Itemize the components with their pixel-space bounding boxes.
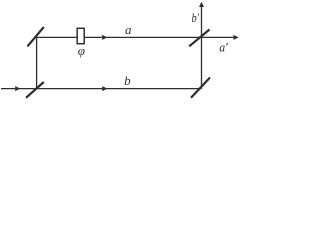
- wire output b' (up): [201, 5, 203, 37]
- wire path a (top): [37, 36, 202, 38]
- mirror top-left: [27, 27, 43, 46]
- wire left vertical: [36, 37, 38, 88]
- arrowhead path a: [102, 35, 107, 40]
- arrowhead input: [15, 86, 20, 91]
- beam splitter BS2 top-right: [189, 30, 209, 47]
- svg-text:b′: b′: [191, 10, 199, 25]
- arrowhead path b: [102, 86, 107, 91]
- beam splitter BS1 bottom-left: [26, 82, 44, 98]
- svg-text:b: b: [124, 73, 131, 88]
- arrowhead output a': [234, 35, 239, 40]
- svg-text:a′: a′: [219, 40, 228, 55]
- arrowhead output b': [199, 2, 204, 7]
- wire input bottom-left: [1, 88, 37, 90]
- phase shifter box: [77, 28, 84, 43]
- mirror bottom-right: [191, 78, 210, 98]
- wire output a' (right): [202, 36, 236, 38]
- svg-text:a: a: [125, 22, 132, 37]
- wire path b (bottom): [37, 88, 202, 90]
- svg-text:φ: φ: [78, 43, 85, 58]
- wire right vertical: [201, 37, 203, 88]
